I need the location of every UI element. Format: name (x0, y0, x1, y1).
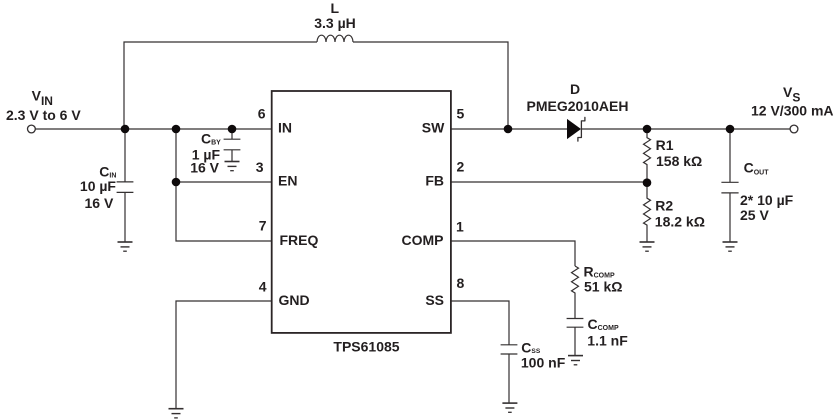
svg-text:10 µF: 10 µF (80, 178, 117, 194)
IC U1 TPS61085 (272, 91, 451, 333)
wire SW to diode (451, 128, 568, 130)
capacitor CCOMP (567, 319, 584, 356)
node FB/R1/R2 junction (643, 178, 652, 187)
resistor RCOMP (572, 266, 579, 318)
svg-text:18.2 kΩ: 18.2 kΩ (655, 213, 705, 229)
node VS/COUT junction (726, 125, 735, 134)
svg-text:7: 7 (259, 218, 267, 234)
svg-text:5: 5 (457, 106, 465, 122)
svg-text:L: L (331, 0, 340, 16)
svg-text:1.1 nF: 1.1 nF (587, 332, 628, 348)
svg-text:16 V: 16 V (84, 195, 113, 211)
wire top loop left (VIN node to inductor) (124, 42, 317, 129)
ground (R2) (640, 241, 655, 243)
svg-text:R2: R2 (655, 198, 673, 214)
node VIN/EN junction (172, 125, 181, 134)
wire top loop right (inductor to SW node) (353, 42, 508, 129)
svg-text:RCOMP: RCOMP (584, 263, 615, 279)
svg-text:2* 10 µF: 2* 10 µF (740, 192, 794, 208)
ground (CBY) (225, 161, 240, 163)
capacitor CIN (117, 129, 134, 242)
wire VIN to IN pin (35, 128, 272, 130)
svg-text:51 kΩ: 51 kΩ (584, 278, 622, 294)
svg-text:GND: GND (279, 292, 310, 308)
wire EN/FREQ vertical (176, 129, 273, 241)
svg-text:CCOMP: CCOMP (588, 316, 619, 332)
svg-text:16 V: 16 V (190, 159, 219, 175)
terminal VS (790, 125, 798, 133)
terminal VIN (28, 125, 36, 133)
svg-text:EN: EN (278, 173, 297, 189)
inductor L (317, 35, 353, 42)
svg-text:1: 1 (456, 219, 464, 235)
svg-text:PMEG2010AEH: PMEG2010AEH (527, 98, 629, 114)
svg-text:2: 2 (457, 159, 465, 175)
node junction dots (121, 125, 735, 187)
svg-text:D: D (570, 81, 580, 97)
wire COMP (451, 241, 576, 266)
ground (CCOMP) (568, 355, 583, 357)
svg-text:2.3 V to 6 V: 2.3 V to 6 V (6, 107, 81, 123)
svg-text:CBY: CBY (201, 130, 221, 146)
capacitor CBY (224, 129, 241, 161)
ground (COUT) (723, 241, 738, 243)
svg-text:FREQ: FREQ (280, 232, 319, 248)
svg-text:TPS61085: TPS61085 (333, 338, 399, 354)
svg-text:3: 3 (256, 159, 264, 175)
wire FB (451, 181, 648, 183)
svg-text:25 V: 25 V (740, 207, 769, 223)
node VIN/CBY junction (228, 125, 237, 134)
svg-text:VIN: VIN (32, 87, 53, 107)
resistor R1 (644, 129, 651, 182)
svg-text:R1: R1 (656, 137, 674, 153)
node diode/R1 junction (643, 125, 652, 134)
wire SS (451, 301, 510, 345)
svg-text:158 kΩ: 158 kΩ (656, 153, 702, 169)
svg-text:6: 6 (258, 105, 266, 121)
svg-text:12 V/300 mA: 12 V/300 mA (751, 103, 834, 119)
node EN tap junction (172, 178, 181, 187)
svg-text:COUT: COUT (744, 160, 770, 177)
diode D PMEG2010AEH (567, 119, 581, 139)
resistor R2 (644, 182, 651, 242)
wire diode to VS terminal (582, 128, 791, 130)
ground (CIN) (118, 241, 133, 243)
node VIN/CIN junction (121, 125, 130, 134)
ground (CSS) (502, 402, 517, 404)
capacitor CSS (501, 345, 518, 403)
svg-text:FB: FB (425, 173, 444, 189)
svg-text:3.3 µH: 3.3 µH (314, 15, 356, 31)
wire EN horizontal (176, 181, 273, 183)
svg-text:100 nF: 100 nF (521, 355, 566, 371)
svg-text:COMP: COMP (402, 232, 444, 248)
ground (GND pin) (169, 408, 184, 410)
svg-text:SS: SS (425, 292, 444, 308)
svg-text:4: 4 (259, 279, 267, 295)
svg-text:CSS: CSS (521, 339, 541, 355)
capacitor COUT (721, 129, 738, 242)
svg-text:IN: IN (278, 120, 292, 136)
wire GND pin (176, 301, 273, 409)
svg-text:8: 8 (457, 275, 465, 291)
svg-text:SW: SW (422, 120, 445, 136)
node SW/L junction (504, 125, 513, 134)
